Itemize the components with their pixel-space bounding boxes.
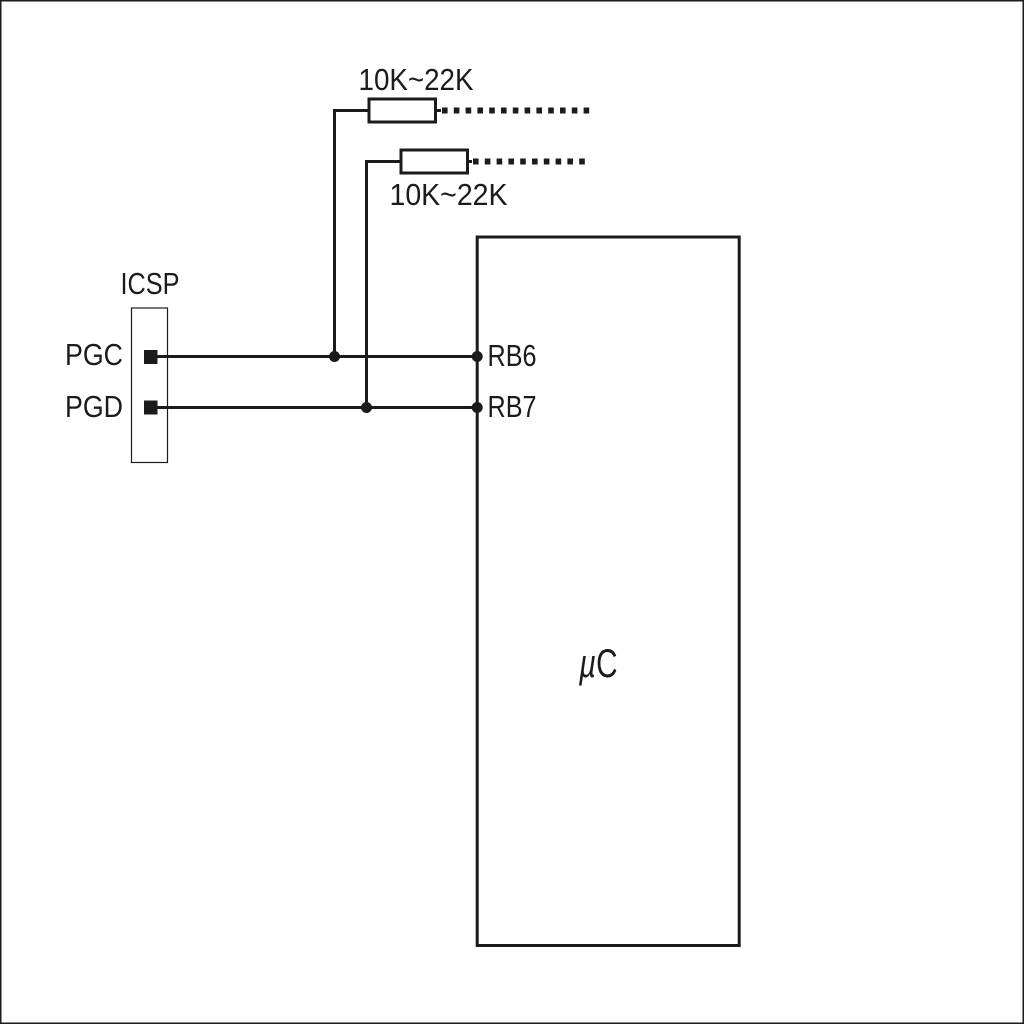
resistor R2 (401, 150, 468, 173)
IC U1 microcontroller (477, 237, 739, 946)
wire R2 pull-up drop (367, 162, 402, 408)
wire R2 dashed continuation (469, 160, 472, 163)
wire R1 dashed continuation (437, 109, 441, 112)
junction node RB6 (472, 351, 483, 362)
svg-text:10K~22K: 10K~22K (359, 62, 474, 97)
svg-text:µC: µC (578, 642, 617, 686)
svg-text:PGD: PGD (65, 389, 123, 424)
svg-text:PGC: PGC (65, 337, 123, 372)
svg-text:RB6: RB6 (488, 338, 537, 373)
junction node RB7 (472, 402, 483, 413)
junction node PGD/R2 (361, 402, 372, 413)
wire PGC to RB6 (156, 355, 477, 358)
svg-text:RB7: RB7 (488, 389, 537, 424)
junction node PGC/R1 (329, 351, 340, 362)
svg-text:10K~22K: 10K~22K (390, 177, 508, 212)
pin PGC pad (144, 350, 158, 364)
connector J1 ICSP (132, 308, 168, 463)
pin PGD pad (144, 401, 158, 415)
svg-text:ICSP: ICSP (121, 266, 180, 301)
resistor R1 (369, 99, 436, 122)
wire R1 pull-up drop (335, 111, 370, 357)
wire PGD to RB7 (156, 406, 477, 409)
